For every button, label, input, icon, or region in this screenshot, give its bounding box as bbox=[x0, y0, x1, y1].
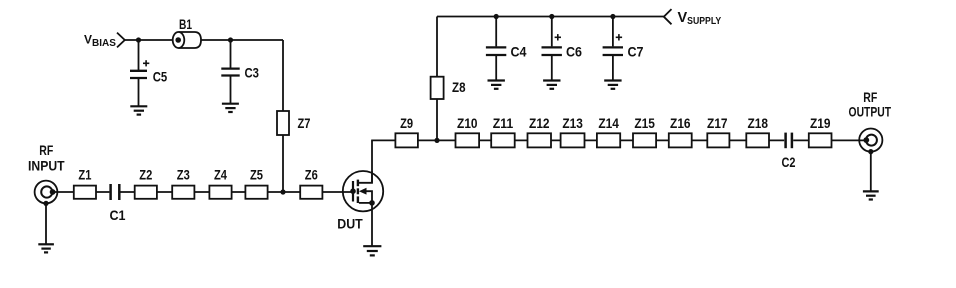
svg-text:Z4: Z4 bbox=[214, 167, 227, 183]
RF input coax connector bbox=[35, 181, 58, 206]
ground (C4) bbox=[488, 81, 505, 89]
wire: Z8 up to supply rail bbox=[436, 17, 438, 77]
svg-text:Z15: Z15 bbox=[634, 115, 655, 131]
svg-text:C4: C4 bbox=[511, 44, 527, 60]
svg-text:C5: C5 bbox=[153, 69, 168, 85]
wire: corner down to Z7 bbox=[282, 40, 284, 111]
impedance Z17 bbox=[707, 133, 729, 147]
impedance Z8 bbox=[431, 77, 444, 99]
impedance Z18 bbox=[746, 133, 769, 147]
svg-text:C7: C7 bbox=[628, 44, 644, 60]
ground (DUT source) bbox=[363, 246, 381, 255]
svg-text:Z16: Z16 bbox=[670, 115, 691, 131]
C5 polarity plus bbox=[143, 60, 149, 66]
node: C4 tap on supply rail bbox=[494, 14, 499, 19]
impedance Z19 bbox=[809, 133, 832, 147]
impedance Z12 bbox=[528, 133, 552, 147]
svg-text:OUTPUT: OUTPUT bbox=[849, 103, 892, 119]
svg-text:Z11: Z11 bbox=[493, 115, 514, 131]
capacitor C7 bbox=[603, 17, 623, 81]
svg-text:Z18: Z18 bbox=[747, 115, 768, 131]
capacitor C3 bbox=[221, 40, 239, 103]
ground (C5) bbox=[130, 106, 147, 114]
svg-text:Z17: Z17 bbox=[707, 115, 728, 131]
svg-text:Z7: Z7 bbox=[298, 115, 311, 131]
impedance Z13 bbox=[561, 133, 585, 147]
capacitor C4 bbox=[486, 17, 506, 81]
ground (C6) bbox=[543, 81, 560, 89]
svg-text:C3: C3 bbox=[245, 65, 260, 81]
impedance Z7 bbox=[277, 111, 289, 135]
capacitor C5 bbox=[130, 40, 147, 106]
wire: input chain right segment (C1 to DUT gate) bbox=[120, 191, 353, 193]
V_SUPPLY terminal arrow bbox=[664, 9, 672, 24]
impedance Z1 bbox=[74, 186, 96, 199]
wire: output chain junction up to Z8 bbox=[436, 99, 438, 140]
RF output coax connector bbox=[859, 129, 882, 155]
svg-text:DUT: DUT bbox=[337, 215, 363, 231]
C6 polarity plus bbox=[555, 34, 561, 40]
wire: input connector to ground bbox=[45, 203, 47, 243]
svg-text:Z1: Z1 bbox=[78, 167, 91, 183]
node: Z7 junction on input chain bbox=[280, 189, 285, 194]
svg-text:Z19: Z19 bbox=[810, 115, 831, 131]
node: C7 tap on supply rail bbox=[610, 14, 615, 19]
impedance Z6 bbox=[300, 186, 322, 199]
wire: V_SUPPLY rail bbox=[437, 16, 664, 18]
wire: input chain left segment (connector to C1) bbox=[53, 191, 110, 193]
V_BIAS terminal arrow bbox=[117, 33, 125, 48]
impedance Z9 bbox=[395, 133, 418, 147]
capacitor C6 bbox=[542, 17, 562, 81]
wire: C2 to RF output connector bbox=[793, 139, 866, 141]
svg-text:Z2: Z2 bbox=[139, 167, 152, 183]
wire: B1 to corner above Z7 bbox=[201, 39, 283, 41]
wire: DUT source to ground bbox=[371, 203, 373, 246]
C7 polarity plus bbox=[616, 34, 622, 40]
ground (RF output) bbox=[863, 191, 879, 199]
svg-text:B1: B1 bbox=[179, 16, 192, 32]
capacitor C2 bbox=[786, 133, 792, 149]
svg-text:Z5: Z5 bbox=[250, 167, 263, 183]
svg-text:VSUPPLY: VSUPPLY bbox=[678, 10, 722, 27]
svg-text:C2: C2 bbox=[782, 154, 796, 170]
ground (C3) bbox=[222, 104, 239, 112]
svg-text:Z14: Z14 bbox=[598, 115, 619, 131]
svg-text:VBIAS: VBIAS bbox=[84, 33, 116, 50]
impedance Z16 bbox=[669, 133, 692, 147]
svg-text:Z8: Z8 bbox=[452, 79, 466, 95]
wire: drain corner to C2 (output chain) bbox=[371, 139, 784, 141]
impedance Z15 bbox=[633, 133, 656, 147]
svg-text:RF: RF bbox=[39, 142, 53, 158]
svg-text:Z10: Z10 bbox=[457, 115, 478, 131]
capacitor C1 bbox=[111, 184, 120, 200]
impedance Z11 bbox=[491, 133, 515, 147]
node: C3 tap on bias line bbox=[228, 37, 233, 42]
wire: V_BIAS arrow to B1 bbox=[125, 39, 173, 41]
label RF OUTPUT bbox=[849, 89, 892, 120]
ground (C7) bbox=[604, 81, 621, 89]
svg-text:C1: C1 bbox=[110, 207, 126, 223]
impedance Z10 bbox=[456, 133, 480, 147]
svg-text:Z9: Z9 bbox=[400, 115, 413, 131]
impedance Z2 bbox=[135, 186, 157, 199]
wire: Z7 down to input chain bbox=[282, 135, 284, 192]
svg-text:Z12: Z12 bbox=[529, 115, 550, 131]
svg-text:Z6: Z6 bbox=[305, 167, 318, 183]
svg-text:Z3: Z3 bbox=[177, 167, 190, 183]
svg-text:C6: C6 bbox=[566, 44, 582, 60]
transistor DUT (MOSFET) bbox=[343, 171, 383, 211]
label RF INPUT bbox=[28, 142, 65, 174]
ground (RF input) bbox=[38, 244, 54, 252]
impedance Z4 bbox=[209, 186, 231, 199]
wire: output connector to ground bbox=[870, 152, 872, 191]
node: Z8 junction on output chain bbox=[434, 138, 439, 143]
impedance Z14 bbox=[597, 133, 620, 147]
wire: DUT drain up to output chain bbox=[371, 140, 373, 182]
ferrite bead B1 bbox=[173, 32, 201, 48]
svg-text:INPUT: INPUT bbox=[28, 158, 65, 174]
node: C5 tap on bias line bbox=[136, 37, 141, 42]
svg-text:Z13: Z13 bbox=[562, 115, 583, 131]
node: C6 tap on supply rail bbox=[549, 14, 554, 19]
impedance Z5 bbox=[245, 186, 267, 199]
impedance Z3 bbox=[172, 186, 194, 199]
